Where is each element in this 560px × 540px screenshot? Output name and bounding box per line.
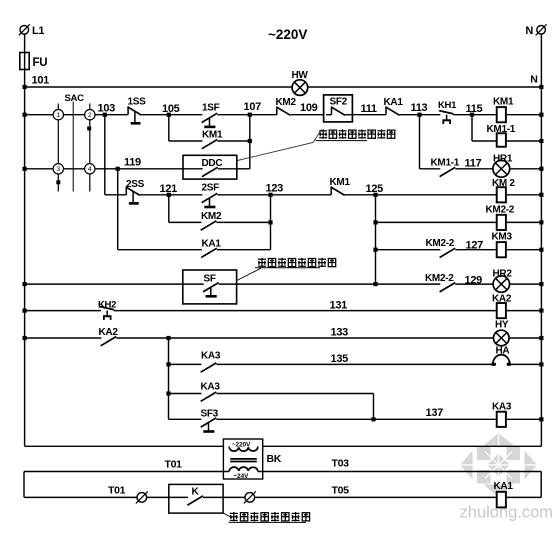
wire 115 branch to KM1-1 coil bbox=[472, 140, 497, 142]
pushbutton 1SS bbox=[128, 97, 147, 124]
label 109 bbox=[300, 102, 318, 114]
node N HR2 bbox=[539, 282, 543, 286]
svg-text:103: 103 bbox=[98, 103, 116, 115]
wire 121 down bbox=[168, 195, 170, 223]
wire T03 top bbox=[258, 458, 541, 472]
wire left rail to BK primary bbox=[25, 445, 230, 447]
remote contact DDC bbox=[183, 155, 237, 179]
contact KM2-2 at HR2 bbox=[425, 273, 455, 292]
wire KA3 coil to N bbox=[506, 418, 542, 420]
lamp HW bbox=[292, 70, 309, 95]
wire KM2 contact to 123 riser bbox=[216, 221, 270, 223]
svg-text:2: 2 bbox=[88, 112, 92, 119]
note from fire control room 2 bbox=[255, 258, 336, 268]
wire 107 down to DDC out bbox=[249, 115, 251, 169]
svg-text:2SS: 2SS bbox=[126, 179, 145, 190]
wire DDC out to 107 riser bbox=[237, 168, 250, 170]
svg-text:137: 137 bbox=[426, 407, 444, 419]
svg-text:KA2: KA2 bbox=[99, 327, 119, 338]
node N KM2 bbox=[539, 193, 543, 197]
connector T05 bbox=[244, 491, 256, 503]
wire KM1 contact to 107 bbox=[217, 140, 249, 142]
svg-text:HR1: HR1 bbox=[493, 154, 513, 165]
wire 125 riser bbox=[375, 195, 377, 284]
node 101 junction bbox=[23, 85, 27, 89]
coil KA3 bbox=[492, 402, 512, 427]
wire 103 down bbox=[104, 115, 106, 195]
node N bus junction bbox=[539, 85, 543, 89]
wire 2SS to 2SF bbox=[140, 194, 202, 196]
note from fire control room 1 bbox=[316, 129, 395, 140]
node 125 bbox=[366, 183, 384, 197]
svg-text:KM1: KM1 bbox=[202, 130, 223, 141]
contact KM2-2 aux bbox=[426, 238, 456, 258]
svg-text:BK: BK bbox=[267, 453, 282, 465]
contact KM1 holding bbox=[202, 130, 223, 149]
fuse FU bbox=[20, 53, 47, 70]
svg-text:KM3: KM3 bbox=[492, 232, 513, 243]
svg-text:133: 133 bbox=[331, 327, 349, 339]
coil KA1 secondary bbox=[494, 481, 514, 507]
node KH2 left rail bbox=[23, 309, 27, 313]
svg-text:135: 135 bbox=[331, 353, 349, 365]
wire L1 to fuse bbox=[24, 35, 26, 53]
node N HY bbox=[539, 336, 543, 340]
node N KM1-1 bbox=[539, 139, 543, 143]
wire HA to N bbox=[510, 363, 542, 365]
wire KA3 rail to KA3 contact 2 bbox=[169, 393, 202, 395]
wire 105 down bbox=[168, 115, 170, 141]
wire T01 top bbox=[24, 459, 229, 472]
wire HY to N bbox=[509, 337, 541, 339]
svg-text:KM2-2: KM2-2 bbox=[486, 205, 515, 216]
svg-text:KM 2: KM 2 bbox=[492, 178, 515, 189]
coil KM3 bbox=[492, 232, 513, 258]
node 107 bbox=[244, 101, 262, 117]
wire KM1-1 coil to N bbox=[506, 140, 542, 142]
svg-text:SF3: SF3 bbox=[201, 409, 219, 420]
wire KM2 to SF2 box bbox=[291, 114, 332, 116]
wire K to T05 bbox=[223, 485, 541, 498]
node N KA3 bbox=[539, 417, 543, 421]
svg-text:SAC: SAC bbox=[65, 93, 85, 104]
node 115 bbox=[466, 103, 483, 117]
wire 1SS to 1SF bbox=[142, 114, 203, 116]
svg-text:N: N bbox=[530, 74, 537, 86]
wire KA3 rail to SF3 bbox=[169, 418, 202, 420]
svg-text:127: 127 bbox=[466, 240, 484, 252]
svg-text:~220V: ~220V bbox=[268, 27, 307, 42]
node 103 bbox=[98, 103, 116, 117]
wire 113 down bbox=[419, 115, 421, 169]
svg-text:HR2: HR2 bbox=[493, 269, 513, 280]
node N KM3 bbox=[539, 248, 543, 252]
wire secondary left edge bbox=[23, 472, 25, 498]
remote pushbutton SF bbox=[183, 270, 237, 304]
svg-text:~220V: ~220V bbox=[232, 441, 251, 448]
wire riser to KA3 coil bbox=[374, 407, 497, 419]
node SF left rail bbox=[23, 282, 27, 286]
wire KA3 rail to KA3 contact bbox=[169, 363, 202, 365]
svg-text:117: 117 bbox=[465, 158, 482, 170]
svg-text:HY: HY bbox=[495, 320, 509, 331]
node 125 at KM3 bbox=[373, 248, 377, 252]
svg-text:KH1: KH1 bbox=[438, 100, 457, 111]
contact KM2 row1 bbox=[276, 97, 297, 115]
wire SF3 to riser bbox=[216, 418, 373, 420]
svg-text:113: 113 bbox=[411, 102, 428, 114]
svg-text:2SF: 2SF bbox=[202, 183, 220, 194]
contact KA3 at HA bbox=[201, 351, 221, 373]
svg-text:T03: T03 bbox=[332, 458, 350, 470]
wire 103 to 2SS bbox=[105, 194, 127, 196]
coil KM2-2 bbox=[486, 205, 515, 231]
terminal N bbox=[525, 24, 546, 37]
wire 119 to KA1 contact bbox=[118, 249, 202, 251]
node 125 at KM2-2 bbox=[373, 220, 377, 224]
SAC contact 1 bbox=[53, 104, 63, 164]
svg-text:T01: T01 bbox=[108, 485, 126, 497]
leader K to note bbox=[223, 513, 232, 518]
wire KA3 rail bbox=[168, 338, 170, 419]
watermark zhulong logo bbox=[460, 433, 554, 522]
svg-text:FU: FU bbox=[33, 57, 48, 69]
wire row1 left rail to SAC bbox=[25, 114, 53, 116]
svg-text:KM1-1: KM1-1 bbox=[431, 158, 460, 169]
node 113 bbox=[411, 102, 428, 117]
node SF3 riser bbox=[371, 417, 375, 421]
wire row2 left rail to SAC34 bbox=[25, 168, 53, 170]
contact KM2 holding bbox=[201, 211, 222, 230]
svg-text:119: 119 bbox=[124, 157, 141, 169]
label 101 bbox=[32, 75, 50, 87]
wire SF box to KM2-2 contact bbox=[237, 283, 441, 285]
contact KM1 row2 bbox=[330, 177, 351, 195]
wire HR2 to N bbox=[509, 283, 541, 285]
svg-text:107: 107 bbox=[244, 101, 262, 113]
svg-text:T05: T05 bbox=[332, 485, 350, 497]
svg-text:KA1: KA1 bbox=[384, 97, 404, 108]
svg-text:KA1: KA1 bbox=[494, 481, 514, 492]
node 121 bbox=[160, 183, 178, 197]
node 119 bbox=[116, 157, 141, 171]
wire KA1 to KH1 bbox=[400, 114, 441, 116]
wire KA2 coil to N bbox=[506, 310, 542, 312]
node 123 branch bbox=[268, 220, 272, 224]
svg-text:105: 105 bbox=[162, 103, 180, 115]
leader DDC to note bbox=[238, 130, 322, 161]
coil KM1 bbox=[493, 97, 514, 123]
wire T01 bottom bbox=[24, 485, 169, 498]
contact KM1-1 bbox=[431, 158, 460, 177]
wire KM2-2 coil to N bbox=[506, 221, 542, 223]
lamp HR1 bbox=[493, 154, 513, 178]
wire N rail bbox=[540, 87, 542, 446]
wire 113 to KM1-1 contact bbox=[420, 168, 441, 170]
svg-text:111: 111 bbox=[361, 103, 377, 115]
svg-text:KA1: KA1 bbox=[202, 239, 222, 250]
svg-text:KM1: KM1 bbox=[330, 177, 351, 188]
node row1 left rail bbox=[23, 113, 27, 117]
svg-text:N: N bbox=[525, 25, 533, 37]
node 107 branch bbox=[248, 139, 252, 143]
wire SAC 2 to 1SS bbox=[95, 114, 128, 116]
SAC contact 3 bbox=[53, 164, 63, 192]
node KA3 hold bbox=[166, 391, 170, 395]
wire left rail to SF box bbox=[25, 283, 183, 285]
contact KA3 holding bbox=[201, 382, 221, 402]
wire fuse to node 101 bbox=[24, 70, 26, 88]
wire 123 riser bbox=[270, 195, 272, 250]
svg-text:KM2: KM2 bbox=[201, 211, 222, 222]
svg-text:KM2-2: KM2-2 bbox=[425, 273, 454, 284]
svg-text:KA2: KA2 bbox=[492, 294, 512, 305]
node 123 bbox=[266, 183, 284, 197]
node N KM2-2 bbox=[539, 220, 543, 224]
node 125 bottom bbox=[373, 282, 377, 286]
svg-text:3: 3 bbox=[56, 166, 60, 173]
wire left rail to KH2 bbox=[25, 310, 101, 312]
svg-text:SF2: SF2 bbox=[330, 97, 348, 108]
svg-text:1: 1 bbox=[56, 112, 60, 119]
node N HA bbox=[539, 362, 543, 366]
svg-text:T01: T01 bbox=[165, 459, 183, 471]
wire SAC 1 to 2 bbox=[64, 114, 85, 116]
svg-text:109: 109 bbox=[300, 102, 318, 114]
label N at bus bbox=[530, 74, 537, 86]
coil KM2 bbox=[492, 178, 515, 202]
wire KA1 to 123 riser bbox=[217, 249, 271, 251]
node N KA2 bbox=[539, 309, 543, 313]
svg-text:1SF: 1SF bbox=[202, 103, 220, 114]
wire BK primary to N rail bbox=[258, 445, 542, 447]
contact KA2 bbox=[99, 327, 119, 346]
pushbutton 1SF bbox=[202, 103, 220, 127]
svg-text:KA3: KA3 bbox=[492, 402, 512, 413]
svg-text:HW: HW bbox=[292, 70, 309, 81]
svg-text:1SS: 1SS bbox=[128, 97, 147, 108]
transformer BK bbox=[223, 439, 281, 480]
remote contact SF2 bbox=[324, 95, 353, 122]
contact KA1 row1 bbox=[384, 97, 404, 115]
label ~220V bbox=[268, 27, 307, 42]
wire left phase rail bbox=[24, 87, 26, 446]
wire KM1 coil to N bbox=[506, 114, 542, 116]
SAC switch linkage bbox=[65, 93, 85, 192]
node 105 bbox=[162, 103, 180, 117]
wire KH2 to KA2 coil bbox=[114, 300, 497, 312]
wire KM2-2 to KM3 coil bbox=[455, 240, 496, 252]
node KA2 left rail bbox=[23, 336, 27, 340]
label 111 bbox=[361, 103, 377, 115]
wire KM1-1 to HR1 bbox=[455, 158, 493, 170]
svg-text:KM2: KM2 bbox=[276, 97, 297, 108]
svg-text:DDC: DDC bbox=[202, 158, 223, 169]
wire 1SF to KM2 bbox=[217, 114, 276, 116]
wire 119 down bbox=[117, 169, 119, 250]
wire 105 branch to KM1 contact bbox=[169, 140, 203, 142]
wire KM2 coil to N bbox=[506, 194, 542, 196]
coil KM1-1 bbox=[487, 124, 516, 147]
SAC contact 4 bbox=[85, 164, 95, 192]
thermal contact KH1 bbox=[438, 100, 457, 124]
node N HR1 bbox=[539, 167, 543, 171]
bell HA bbox=[492, 346, 511, 366]
node row2 left rail bbox=[23, 167, 27, 171]
wire 125 to KM2-2 coil bbox=[376, 221, 497, 223]
wire KH1 to KM1 coil bbox=[453, 114, 496, 116]
svg-text:115: 115 bbox=[466, 103, 483, 115]
wire SAC 3 to 4 bbox=[64, 168, 85, 170]
lamp HY bbox=[494, 320, 510, 346]
terminal L1 bbox=[19, 24, 45, 37]
leader SF to note bbox=[237, 268, 261, 280]
svg-text:121: 121 bbox=[160, 183, 178, 195]
note from fire control room 3 bbox=[229, 512, 310, 522]
coil KA2 bbox=[492, 294, 512, 319]
thermal contact KH2 bbox=[98, 300, 116, 320]
pushbutton 2SS bbox=[126, 179, 145, 203]
wire secondary right edge bbox=[540, 472, 542, 498]
wire 121 branch to KM2 contact bbox=[169, 221, 202, 223]
svg-text:125: 125 bbox=[366, 183, 384, 195]
pushbutton 2SF bbox=[202, 183, 220, 208]
wire top phase bus 101 bbox=[25, 86, 542, 88]
SAC contact 2 bbox=[85, 104, 95, 164]
node KA3 rail top bbox=[166, 336, 170, 340]
svg-text:KM2-2: KM2-2 bbox=[426, 238, 455, 249]
wire KA3 to HA bbox=[216, 353, 492, 365]
svg-text:101: 101 bbox=[32, 75, 50, 87]
wire KM1 to KM2 coil bbox=[345, 194, 497, 196]
wire N terminal to bus bbox=[540, 35, 542, 88]
svg-text:131: 131 bbox=[330, 300, 348, 312]
wire KA2 to HY bbox=[116, 327, 493, 339]
wire KA3 hold to riser bbox=[216, 393, 373, 395]
node KA3 135 bbox=[166, 362, 170, 366]
wire KA3 riser bbox=[373, 394, 375, 420]
lamp HR2 bbox=[493, 269, 513, 293]
wire 115 down bbox=[471, 115, 473, 141]
svg-text:123: 123 bbox=[266, 183, 284, 195]
svg-text:KM1: KM1 bbox=[493, 97, 514, 108]
contact KA1 bbox=[201, 239, 221, 258]
svg-text:~24V: ~24V bbox=[234, 473, 250, 480]
svg-text:KA3: KA3 bbox=[201, 382, 221, 393]
node N row1 bbox=[539, 113, 543, 117]
wire KM2-2 to HR2 bbox=[455, 275, 493, 287]
svg-text:L1: L1 bbox=[32, 25, 44, 37]
wire SF2 to KA1 bbox=[350, 114, 386, 116]
svg-text:KM1-1: KM1-1 bbox=[487, 124, 516, 135]
pushbutton SF3 bbox=[201, 409, 219, 432]
wire 2SF to KM1 bbox=[217, 194, 331, 196]
svg-text:KA3: KA3 bbox=[201, 351, 221, 362]
svg-text:4: 4 bbox=[88, 166, 92, 173]
wire 125 to KM2-2 contact bbox=[376, 249, 441, 251]
svg-text:129: 129 bbox=[465, 275, 483, 287]
wire left rail to KA2 contact bbox=[25, 337, 102, 339]
svg-text:K: K bbox=[192, 487, 200, 498]
wire SAC 4 to DDC bbox=[95, 168, 183, 170]
svg-text:SF: SF bbox=[204, 274, 216, 285]
connector T01 bbox=[136, 491, 148, 503]
wire HR1 to N bbox=[509, 168, 541, 170]
remote contact K bbox=[169, 484, 223, 513]
svg-text:HA: HA bbox=[496, 346, 510, 357]
svg-text:KH2: KH2 bbox=[98, 300, 116, 311]
wire KM3 coil to N bbox=[506, 249, 542, 251]
